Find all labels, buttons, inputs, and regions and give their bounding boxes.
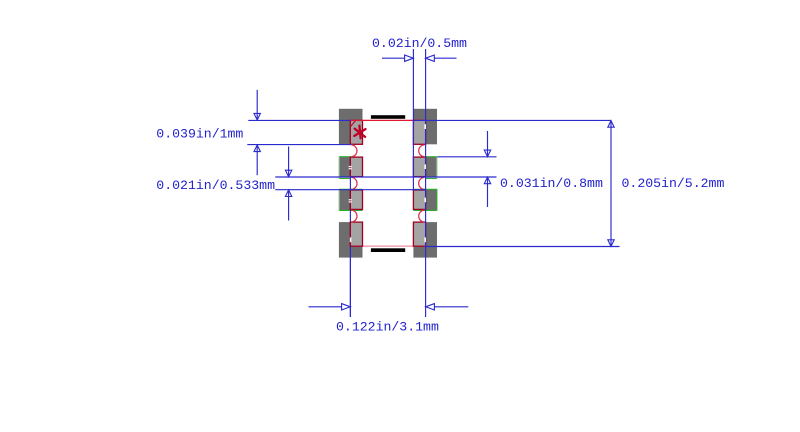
- lead outline pin8: [413, 120, 425, 144]
- pad P5 (pin 5, copper): [413, 222, 437, 258]
- bottom dim ext line x350 lower: [349, 252, 351, 317]
- svg-text:0.031in/0.8mm: 0.031in/0.8mm: [500, 176, 603, 191]
- lead outline pin6: [413, 190, 425, 209]
- pin number 7: [424, 164, 426, 169]
- svg-text:0.02in/0.5mm: 0.02in/0.5mm: [372, 36, 467, 51]
- pin1 chamfer: [350, 121, 355, 127]
- 0.021 upper arrowhead down: [285, 170, 291, 177]
- pin number 5: [424, 237, 426, 242]
- lead outline pin7: [413, 157, 425, 177]
- pin number 3: [349, 199, 352, 200]
- pad P1 (pin 1, copper): [339, 109, 363, 145]
- body arc left 1-2: [351, 145, 357, 157]
- pad P3 (pin 3, copper): [339, 189, 363, 210]
- 0.039 upper arrowhead down: [254, 113, 260, 120]
- lead overlap fill pin4: [350, 222, 362, 246]
- 0.031 lower arrowhead up: [484, 177, 490, 184]
- pin number 8: [424, 124, 426, 129]
- 0.039 lower arrowhead up: [254, 145, 260, 152]
- body arc left 3-4: [351, 210, 357, 222]
- lead outline pin3: [350, 190, 362, 209]
- body top edge: [350, 119, 425, 121]
- body arc right 8-7: [419, 145, 425, 157]
- body bottom edge (pink): [350, 245, 425, 247]
- silkscreen bar top: [371, 115, 405, 119]
- body arc right 7-6: [419, 177, 425, 189]
- bottom dim arrow line right: [434, 306, 468, 308]
- pad P7 (pin 7, copper): [413, 157, 437, 178]
- ext line x350: [349, 157, 351, 317]
- green pad outline P2: [339, 157, 437, 211]
- 0.031 upper arrowhead down: [484, 150, 490, 157]
- top dim arrow line left: [382, 57, 405, 59]
- bottom dim arrowhead right-pointing: [342, 304, 351, 310]
- lead overlap fill pin8: [413, 120, 425, 144]
- top dim arrowhead left-pointing: [426, 55, 435, 61]
- lead outline pin1: [350, 120, 362, 144]
- lead overlap fill pin6: [413, 190, 425, 209]
- ext line x425: [425, 49, 427, 317]
- svg-text:0.021in/0.533mm: 0.021in/0.533mm: [156, 178, 275, 193]
- svg-text:0.205in/5.2mm: 0.205in/5.2mm: [622, 176, 725, 191]
- 0.021 lower stem: [288, 190, 290, 221]
- pin number 4: [350, 237, 352, 242]
- dim line L4 row2 bottom: [275, 176, 496, 178]
- lead outline pin4: [350, 222, 362, 246]
- 0.021 upper stem: [288, 147, 290, 177]
- dim line L6 bottom body: [426, 246, 620, 248]
- 0.021 lower arrowhead up: [285, 190, 291, 197]
- pad P4 (pin 4, copper): [339, 222, 363, 258]
- dim line L1 top body extension right: [413, 119, 611, 121]
- pin number 6: [424, 198, 426, 203]
- green pad outline P3: [339, 188, 363, 190]
- 0.205 dim line vertical: [610, 121, 612, 247]
- pin number 2: [349, 124, 426, 242]
- 0.031 lower stem: [487, 177, 489, 207]
- bottom dim arrowhead left-pointing: [426, 304, 435, 310]
- green pad outline P6: [413, 188, 437, 190]
- keep full: blue overlays: [413, 209, 437, 211]
- pad P8 (pin 8, copper): [413, 109, 437, 145]
- dim line L5 row3 top: [275, 189, 425, 191]
- 0.039 lower stem: [256, 145, 258, 175]
- svg-text:0.122in/3.1mm: 0.122in/3.1mm: [336, 319, 439, 334]
- lead overlap fill pin5: [413, 222, 425, 246]
- body arc left 2-3: [351, 177, 357, 189]
- body arc right 6-5: [419, 210, 425, 222]
- dim line L1 top body extension left: [248, 119, 350, 121]
- 0.205 arrowhead up: [608, 121, 614, 128]
- lead overlap fill pin7: [413, 157, 425, 177]
- lead outline pin2: [350, 157, 362, 177]
- svg-text:0.039in/1mm: 0.039in/1mm: [156, 127, 243, 142]
- lead overlap fill pin2: [350, 157, 362, 177]
- 0.039 upper stem: [256, 90, 258, 120]
- pin1 asterisk: [354, 126, 365, 139]
- ext line x413: [412, 49, 414, 190]
- pad P2 (pin 2, copper): [339, 157, 363, 178]
- lead overlap fill pin3: [350, 190, 362, 209]
- 0.205 arrowhead down: [608, 240, 614, 247]
- top dim arrowhead right-pointing: [405, 55, 414, 61]
- lead outline pin5: [413, 222, 425, 246]
- dim line L3 row2 top right: [437, 156, 496, 158]
- pad P6 (pin 6, copper): [413, 189, 437, 210]
- green pad outline P7: [425, 156, 437, 158]
- dim line L2 row1 bottom: [247, 144, 351, 146]
- 0.031 upper stem: [487, 131, 489, 157]
- top dim arrow line right: [434, 57, 456, 59]
- silkscreen bar bottom: [371, 248, 405, 252]
- bottom dim arrow line left: [309, 306, 342, 308]
- lead overlap fill pin1: [350, 120, 362, 144]
